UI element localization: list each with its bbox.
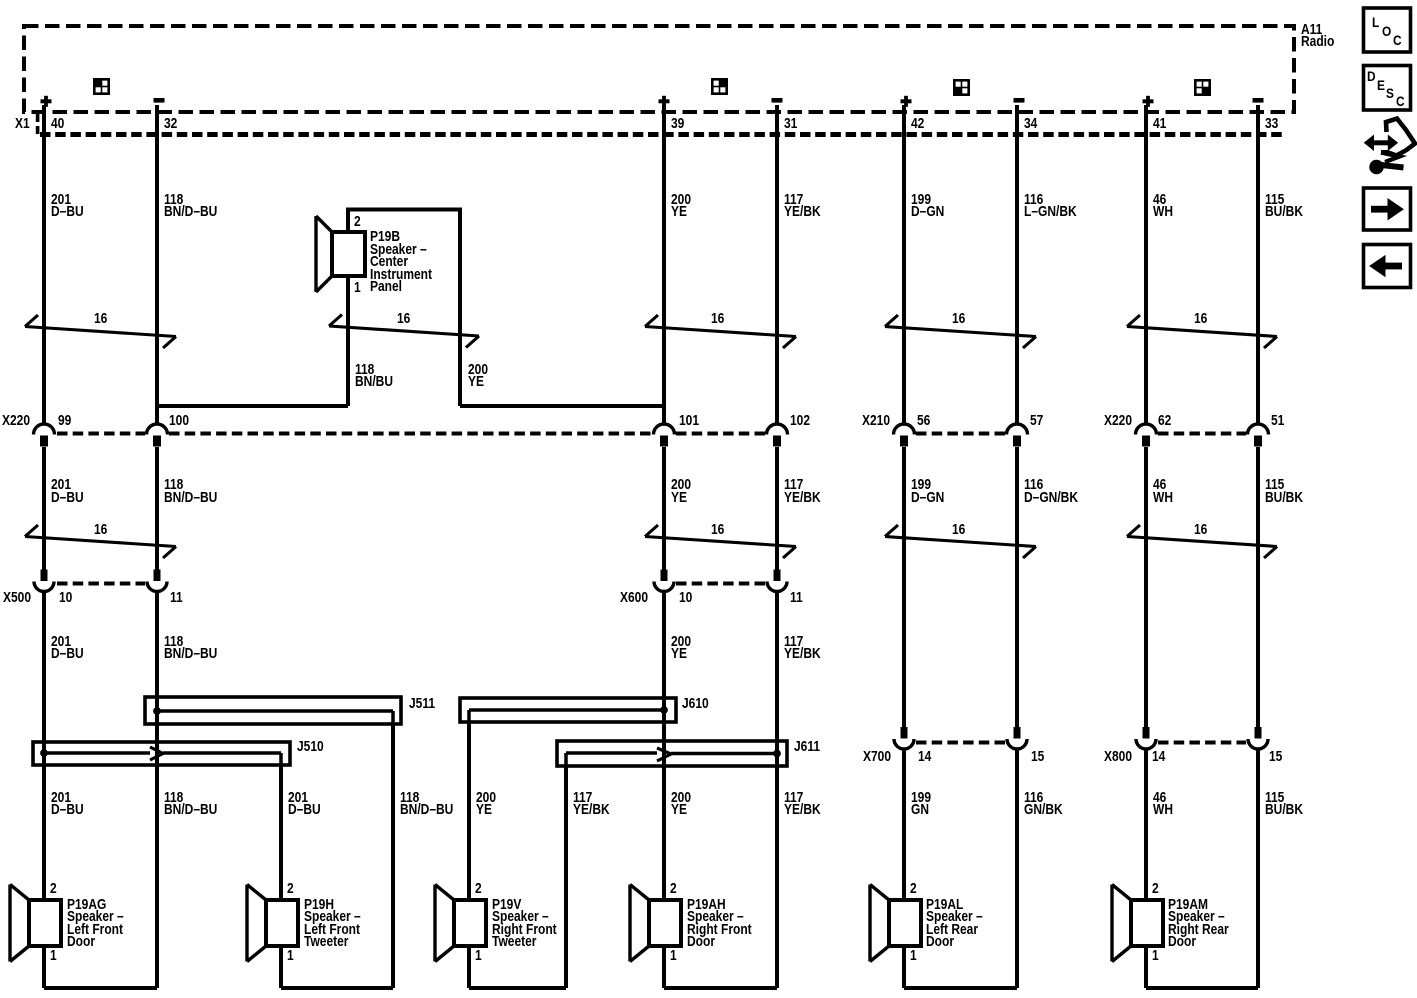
connector X500 dashed line	[57, 582, 145, 586]
DESC button text S	[1386, 87, 1394, 100]
wire label 201 D-BU row3	[51, 636, 84, 661]
wire P19H pin 1 return	[279, 946, 283, 988]
LOC button text C	[1393, 34, 1402, 47]
gauge label 16 pair1 upper	[94, 313, 107, 326]
wire 46 WH X800 to P19AM pin 2	[1144, 750, 1148, 900]
wire 118 BN/BU P19B pin 1 down	[346, 276, 350, 406]
gauge label 16 pair1 lower	[94, 524, 107, 537]
LOC button text O	[1382, 25, 1391, 38]
wire P19AG pin 1 return	[42, 946, 46, 988]
X700 pin number 15	[1031, 751, 1044, 764]
connector X220 rear dashed line	[1158, 432, 1246, 436]
radio minus terminal pin 31	[772, 98, 783, 103]
wire 200 YE P19B to X220 pin 101	[460, 404, 664, 408]
sidebar DESC button	[1364, 66, 1411, 111]
connector X210 dashed line	[916, 432, 1005, 436]
radio plus terminal pin 42	[901, 99, 912, 103]
radio pin number 33	[1265, 118, 1278, 131]
wire label 46 WH row1	[1153, 194, 1173, 219]
twisted pair marker rear left pair upper	[885, 327, 1036, 337]
connector terminal X800 pin 14	[1143, 727, 1150, 739]
speaker position icon left rear	[953, 79, 970, 96]
radio component label A11	[1301, 24, 1334, 49]
wire P19AH pin 1 return	[662, 946, 666, 988]
wire 200 YE J610 to P19V pin 2	[467, 722, 471, 900]
speaker symbol P19V	[454, 900, 486, 946]
X220 pin number 101	[679, 415, 699, 428]
speaker symbol P19AM	[1131, 900, 1163, 946]
wire label 199 D-GN row1	[911, 194, 944, 219]
P19AG pin number 1	[50, 950, 57, 963]
radio plus terminal pin 39	[659, 99, 670, 103]
wire 118 BN/D-BU J511 drop	[391, 724, 395, 988]
wire label 199 D-GN row2	[911, 479, 944, 504]
speaker P19AL name	[926, 899, 983, 949]
connector terminal X220 pin 102	[767, 424, 788, 434]
wire label 46 WH row2	[1153, 479, 1173, 504]
sidebar next arrow button	[1364, 188, 1411, 230]
connector terminal X800 pin 15	[1255, 727, 1262, 739]
wire 199 D-GN radio pin 42 to X210 pin 56	[902, 105, 906, 424]
wire P19AM pin 1 return	[1144, 946, 1148, 988]
radio minus terminal pin 34	[1014, 98, 1025, 103]
P19AM pin number 1	[1152, 950, 1159, 963]
X500 pin number 10	[59, 592, 72, 605]
X210 pin number 57	[1030, 415, 1043, 428]
DESC button text D	[1367, 70, 1376, 83]
speaker symbol P19AG	[29, 900, 61, 946]
X500 pin number 11	[170, 592, 183, 605]
splice pack J511 bar	[145, 697, 401, 724]
speaker P19AG name	[67, 899, 124, 949]
connector terminal X500 pin 11	[154, 570, 161, 582]
wire 200 YE X220 to X600	[662, 447, 666, 570]
P19AL pin number 1	[910, 950, 917, 963]
wire 201 D-BU X500 to P19AG pin 2	[42, 592, 46, 900]
wire 115 BU/BK radio pin 33 to X220 pin 51	[1256, 105, 1260, 424]
wire 117 YE/BK J611 drop	[564, 766, 568, 988]
DESC button text C2	[1396, 95, 1405, 108]
splice pack label J611	[794, 741, 820, 754]
speaker symbol P19H	[266, 900, 298, 946]
wire 118 BN/D-BU radio pin 32 to X220 pin 100	[155, 105, 159, 424]
connector terminal X210 pin 57	[1007, 424, 1028, 434]
radio minus terminal pin 32	[154, 98, 165, 103]
connector terminal X220 rear pin 51	[1248, 424, 1269, 434]
connector X210 label	[862, 415, 890, 428]
wire label 115 BU/BK row2	[1265, 479, 1303, 504]
connector X800 dashed line	[1158, 741, 1246, 745]
connector terminal X600 pin 11	[774, 570, 781, 582]
P19AM pin number 2	[1152, 883, 1159, 896]
wire label 200 YE bottom1	[476, 792, 496, 817]
splice pack label J510	[297, 741, 324, 754]
junction dot J611 wire 117	[773, 750, 781, 758]
twisted pair marker front right pair lower	[645, 537, 796, 547]
wire 118 BN/D-BU X220 to X500	[155, 447, 159, 570]
wire label 118 BN/D-BU bottom2	[400, 792, 453, 817]
connector X1 dashed tick	[36, 114, 40, 122]
radio pin number 34	[1024, 118, 1037, 131]
connector terminal X210 pin 56	[894, 424, 915, 434]
wire 118 BN/D-BU X500 through J511 J510 down	[155, 592, 159, 988]
wire label 201 D-BU row1	[51, 194, 84, 219]
wire 199 D-GN X210 to X700	[902, 447, 906, 727]
gauge label 16 pair3 upper	[952, 313, 965, 326]
connector terminal X220 pin 101	[654, 424, 675, 434]
X600 pin number 10	[679, 592, 692, 605]
wire 201 D-BU X220 to X500	[42, 447, 46, 570]
P19H pin number 2	[287, 883, 294, 896]
wire 200 YE P19B pin 2 loop	[346, 208, 462, 212]
radio pin number 39	[671, 118, 684, 131]
speaker position icon right front	[711, 78, 728, 95]
X210 pin number 56	[917, 415, 930, 428]
wire 116 GN/BK X700 down	[1015, 750, 1019, 988]
P19AG pin number 2	[50, 883, 57, 896]
gauge label 16 pair2 upper	[711, 313, 724, 326]
wire label 200 YE bottom2	[671, 792, 691, 817]
junction dot J610 wire 200	[660, 706, 668, 714]
P19B pin number 1	[354, 282, 361, 295]
connector X220 rear label	[1104, 415, 1132, 428]
connector terminal X220 rear pin 62	[1136, 424, 1157, 434]
wire 199 GN X700 to P19AL pin 2	[902, 750, 906, 900]
wire label 115 BU/BK bottom	[1265, 792, 1303, 817]
connector X1 dotted line	[40, 132, 1283, 137]
twisted pair marker P19B pair	[329, 326, 479, 336]
twisted pair marker rear left pair lower	[885, 537, 1036, 547]
connector terminal X600 pin 10	[661, 570, 668, 582]
radio pin number 42	[911, 118, 924, 131]
wire label 199 GN bottom	[911, 792, 931, 817]
junction dot J510 wire 201	[40, 749, 48, 757]
radio pin number 31	[784, 118, 797, 131]
X800 pin number 14	[1152, 751, 1165, 764]
wire 200 YE radio pin 39 to X220 pin 101	[662, 105, 666, 424]
X220 rear pin number 51	[1271, 415, 1284, 428]
connector X600 label	[620, 592, 648, 605]
X220 pin number 99	[58, 415, 71, 428]
connector X800 label	[1104, 751, 1132, 764]
LOC button text L	[1372, 16, 1379, 29]
X700 pin number 14	[918, 751, 931, 764]
splice pack J611 bar	[557, 741, 787, 766]
connector X220 label	[2, 415, 30, 428]
wire P19V pin 1 return	[467, 946, 471, 988]
wire label 118 BN/D-BU row3	[164, 636, 217, 661]
P19AL pin number 2	[910, 883, 917, 896]
twisted pair marker front right pair upper	[645, 327, 796, 337]
X800 pin number 15	[1269, 751, 1282, 764]
radio minus terminal pin 33	[1253, 98, 1264, 103]
wire label 117 YE/BK row1	[784, 194, 821, 219]
DESC button text E	[1377, 79, 1385, 92]
speaker P19AH name	[687, 899, 752, 949]
splice pack J510 bar	[33, 742, 290, 765]
wire 117 YE/BK X220 to X600	[775, 447, 779, 570]
wire 116 D-GN/BK X210 to X700	[1015, 447, 1019, 727]
wire 200 YE X600 through J610 J611 to P19AH pin 2	[662, 592, 666, 900]
gauge label 16 pair3 lower	[952, 524, 965, 537]
P19V pin number 1	[475, 950, 482, 963]
X220 rear pin number 62	[1158, 415, 1171, 428]
gauge label 16 pair2 lower	[711, 524, 724, 537]
sidebar connector-view icon	[1371, 140, 1390, 145]
connector terminal X700 pin 14	[901, 727, 908, 739]
wire P19AL pin 1 return	[902, 946, 906, 988]
splice pack J610 bar	[460, 698, 676, 722]
wire label 200 YE row1	[671, 194, 691, 219]
twisted pair marker front left pair lower	[25, 537, 176, 547]
connector X600 dashed line	[676, 582, 765, 586]
wire 201 D-BU J510 to P19H pin 2	[279, 765, 283, 900]
wire label 116 L-GN/BK row1	[1024, 194, 1077, 219]
wire label 200 YE row3	[671, 636, 691, 661]
wire label 117 YE/BK bottom2	[784, 792, 821, 817]
speaker P19H name	[304, 899, 361, 949]
connector X500 label	[3, 592, 31, 605]
radio plus terminal pin 40	[41, 99, 52, 103]
wire label 201 D-BU bottom1	[51, 792, 84, 817]
speaker position icon left front	[93, 78, 110, 95]
twisted pair marker front left pair upper	[25, 327, 176, 337]
radio plus terminal pin 41	[1143, 99, 1154, 103]
radio A11 dashed outline box	[24, 26, 1294, 112]
P19B pin number 2	[354, 216, 361, 229]
speaker symbol P19AL	[889, 900, 921, 946]
wire label 118 BN/D-BU row2	[164, 479, 217, 504]
sidebar back arrow button	[1364, 245, 1411, 288]
connector terminal X700 pin 15	[1014, 727, 1021, 739]
connector terminal X500 pin 10	[41, 570, 48, 582]
wire label 115 BU/BK row1	[1265, 194, 1303, 219]
connector terminal X220 pin 99	[34, 424, 55, 434]
speaker P19B name	[370, 231, 432, 294]
speaker P19V name	[492, 899, 557, 949]
connector X700 label	[863, 751, 891, 764]
wire 117 YE/BK X600 through J611 down	[775, 592, 779, 988]
wire label 200 YE row2	[671, 479, 691, 504]
wire label 117 YE/BK row2	[784, 479, 821, 504]
X600 pin number 11	[790, 592, 803, 605]
gauge label 16 pair4 upper	[1194, 313, 1207, 326]
speaker symbol P19AH	[649, 900, 681, 946]
speaker symbol P19B	[332, 232, 365, 276]
wire 46 WH radio pin 41 to X220 pin 62	[1144, 105, 1148, 424]
wire 117 YE/BK radio pin 31 to X220 pin 102	[775, 105, 779, 424]
connector terminal X220 pin 100	[147, 424, 168, 434]
wire label 46 WH bottom	[1153, 792, 1173, 817]
P19AH pin number 2	[670, 883, 677, 896]
junction dot J511 wire 118	[153, 707, 161, 715]
wire label 117 YE/BK bottom1	[573, 792, 610, 817]
speaker P19AM name	[1168, 899, 1229, 949]
radio pin number 32	[164, 118, 177, 131]
twisted pair marker rear right pair upper	[1127, 327, 1277, 337]
wire label 118 BN/D-BU row1	[164, 194, 217, 219]
speaker position icon right rear	[1194, 79, 1211, 96]
wire 118 BN/BU P19B to X220 pin 100	[157, 404, 348, 408]
wire label 118 BN/BU branch	[355, 364, 393, 389]
wire 115 BU/BK X220 to X800	[1256, 447, 1260, 727]
wire label 116 GN/BK bottom	[1024, 792, 1063, 817]
wire label 201 D-BU bottom2	[288, 792, 321, 817]
splice pack label J610	[682, 698, 709, 711]
wire 115 BU/BK X800 down	[1256, 750, 1260, 988]
wire label 201 D-BU row2	[51, 479, 84, 504]
wire 116 L-GN/BK radio pin 34 to X210 pin 57	[1015, 105, 1019, 424]
twisted pair marker rear right pair lower	[1127, 537, 1277, 547]
connector X1 label	[15, 118, 30, 131]
X220 pin number 102	[790, 415, 810, 428]
P19AH pin number 1	[670, 950, 677, 963]
wire label 116 D-GN/BK row2	[1024, 479, 1078, 504]
wire label 117 YE/BK row3	[784, 636, 821, 661]
connector X220 dashed line	[57, 432, 145, 436]
radio pin number 41	[1153, 118, 1166, 131]
P19V pin number 2	[475, 883, 482, 896]
wire label 200 YE branch	[468, 364, 488, 389]
connector X700 dashed line	[916, 741, 1005, 745]
gauge label 16 pair4 lower	[1194, 524, 1207, 537]
wire label 118 BN/D-BU bottom1	[164, 792, 217, 817]
gauge label 16 P19B pair	[397, 313, 410, 326]
radio pin number 40	[51, 118, 64, 131]
X220 pin number 100	[169, 415, 189, 428]
wire 46 WH X220 to X800	[1144, 447, 1148, 727]
sidebar LOC button	[1364, 8, 1411, 52]
wire 201 D-BU radio pin 40 to X220 pin 99	[42, 105, 46, 424]
P19H pin number 1	[287, 950, 294, 963]
splice pack label J511	[409, 698, 435, 711]
